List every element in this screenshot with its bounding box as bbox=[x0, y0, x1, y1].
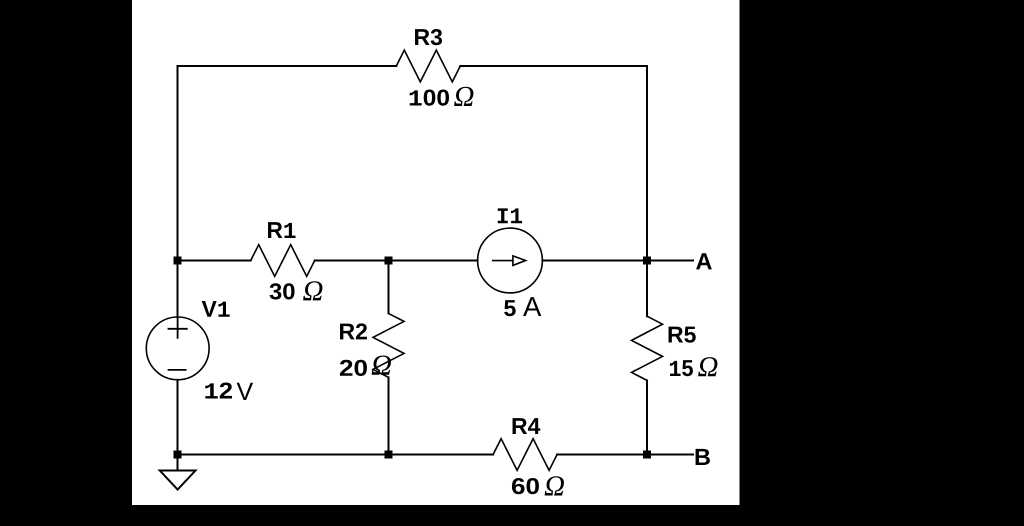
wire bottom row left bbox=[178, 454, 494, 456]
junction node R2-bottom bbox=[385, 451, 393, 459]
label V1 bbox=[202, 301, 230, 317]
resistor R3 bbox=[396, 50, 460, 82]
value 12 bbox=[205, 382, 232, 398]
unit A bbox=[523, 297, 541, 316]
label R1 bbox=[268, 222, 296, 238]
ohm sign R4 bbox=[545, 476, 564, 495]
wire R2 branch upper bbox=[388, 261, 390, 314]
label R2 bbox=[340, 323, 367, 339]
wire stub to node B bbox=[651, 454, 693, 456]
ohm sign R1 bbox=[303, 281, 322, 300]
wire right vertical upper bbox=[646, 66, 648, 316]
resistor R4 bbox=[493, 439, 557, 471]
node A label bbox=[696, 253, 712, 269]
wire top-left horizontal bbox=[178, 65, 397, 67]
ohm sign R5 bbox=[698, 357, 717, 376]
label I1 bbox=[498, 208, 522, 223]
value 100 bbox=[410, 89, 449, 105]
wire R2 branch lower bbox=[388, 377, 390, 454]
value 5 bbox=[504, 300, 515, 316]
wire stub to node A bbox=[651, 260, 693, 262]
resistor R1 bbox=[251, 245, 315, 277]
voltage source V1 bbox=[146, 317, 209, 380]
V1 plus sign bbox=[169, 319, 187, 338]
label R3 bbox=[415, 29, 442, 45]
junction node left-middle bbox=[174, 257, 182, 265]
wire bottom row right bbox=[557, 454, 647, 456]
value 20 bbox=[340, 360, 367, 376]
ohm sign R3 bbox=[454, 87, 473, 106]
value 60 bbox=[512, 478, 539, 494]
ohm sign R2 bbox=[372, 355, 391, 374]
I1 arrow bbox=[493, 256, 526, 266]
node A junction bbox=[643, 257, 651, 265]
wire top-right horizontal bbox=[460, 65, 647, 67]
wire left vertical lower bbox=[177, 380, 179, 455]
node B junction bbox=[643, 451, 651, 459]
unit V bbox=[237, 383, 253, 400]
resistor R5 bbox=[632, 316, 663, 380]
wire right vertical lower bbox=[646, 380, 648, 454]
node B label bbox=[696, 449, 710, 465]
ground bbox=[160, 455, 196, 490]
wire middle row center bbox=[315, 260, 478, 262]
wire middle row right bbox=[542, 260, 647, 262]
label R5 bbox=[669, 327, 696, 343]
label R4 bbox=[513, 418, 541, 434]
junction node R2-top bbox=[385, 257, 393, 265]
value 30 bbox=[270, 283, 295, 299]
wire middle row left bbox=[178, 260, 251, 262]
junction node left-bottom bbox=[174, 451, 182, 459]
wire left vertical upper bbox=[177, 66, 179, 317]
value 15 bbox=[670, 360, 693, 376]
V1 minus sign bbox=[169, 369, 186, 371]
current source I1 bbox=[478, 228, 543, 293]
resistor R2 bbox=[373, 313, 404, 377]
